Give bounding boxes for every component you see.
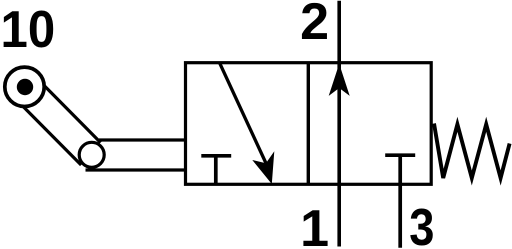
svg-text:3: 3 xyxy=(409,199,434,249)
svg-text:2: 2 xyxy=(300,0,329,51)
lever arm (angled rod from roller to pivot) xyxy=(14,76,101,165)
chamber divider xyxy=(307,63,310,185)
roller hub dot xyxy=(17,79,33,95)
svg-text:10: 10 xyxy=(1,0,56,58)
port 2 / port 1 flow line (vertical, through right chamber) xyxy=(337,1,341,247)
pivot circle xyxy=(79,142,104,167)
valve body outline xyxy=(186,63,432,185)
return spring xyxy=(434,124,510,179)
svg-text:1: 1 xyxy=(300,200,329,249)
diagonal arrowhead xyxy=(252,151,274,184)
plunger rod (horizontal, pivot to valve body) xyxy=(86,140,188,170)
up arrowhead (right chamber) xyxy=(329,64,350,96)
roller circle xyxy=(5,67,44,106)
diagonal flow path (left chamber) xyxy=(220,63,268,167)
blocked port T (left chamber) xyxy=(201,156,231,185)
blocked port T (right chamber) + port 3 line xyxy=(385,155,415,248)
